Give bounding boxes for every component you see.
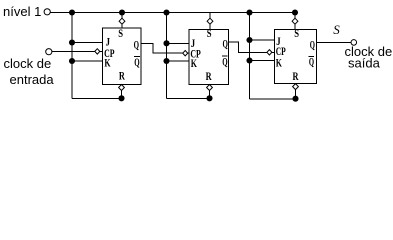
U3 pin labels — [276, 26, 315, 83]
flip-flop U2 box — [189, 30, 228, 85]
U1 CP stub — [100, 50, 103, 52]
U2 S stub wire — [209, 13, 211, 19]
wire FF2 K — [167, 60, 190, 62]
svg-text:K: K — [191, 56, 198, 70]
U2 S bubble — [207, 18, 213, 24]
svg-text:R: R — [206, 69, 212, 83]
terminal clock de entrada — [46, 49, 52, 55]
terminal nivel 1 — [44, 9, 50, 15]
U2 Qbar overline — [222, 55, 228, 57]
U3 S stub lower — [294, 24, 296, 30]
junction dot FF1 K — [69, 58, 75, 64]
svg-text:Q: Q — [222, 55, 227, 69]
svg-text:Q: Q — [134, 37, 139, 51]
svg-text:nível 1: nível 1 — [3, 4, 41, 19]
svg-text:S: S — [118, 26, 123, 40]
wire top rail — [50, 12, 295, 14]
svg-text:S: S — [294, 26, 299, 40]
junction dot top rail FF1 S stub — [119, 9, 125, 15]
wire clock de entrada to CP1 — [52, 50, 95, 52]
clock de saida label — [345, 44, 393, 71]
wire FF2 J — [167, 42, 190, 44]
U2 pin labels — [190, 26, 228, 83]
svg-text:R: R — [293, 69, 299, 83]
junction dot FF3 J — [246, 37, 252, 43]
U3 S stub wire — [294, 13, 296, 19]
flip-flop U3 box — [275, 30, 317, 84]
wire FF1 bottom — [72, 98, 122, 100]
U3 Qbar overline — [309, 55, 314, 57]
wire FF3 bottom — [250, 98, 296, 100]
wire FF3 K — [250, 60, 275, 62]
U3 R bubble — [293, 84, 299, 90]
wire FF1 K — [72, 60, 103, 62]
svg-text:K: K — [104, 55, 111, 69]
junction dot FF2 R — [206, 95, 212, 101]
terminal clock de saida — [351, 40, 357, 46]
wire FF1 JK drop rail — [71, 13, 73, 99]
wire U3 Q to clock de saida — [317, 42, 352, 44]
junction dot FF3 R — [292, 96, 298, 102]
wire FF2 JK drop rail — [166, 13, 168, 99]
wire U1 Q to U2 CP — [141, 43, 183, 53]
svg-text:clock de: clock de — [4, 56, 52, 71]
U1 S stub lower — [121, 24, 123, 28]
svg-text:Q: Q — [310, 38, 315, 52]
U2 CP stub — [188, 52, 189, 54]
U1 S bubble — [119, 18, 125, 24]
wire FF3 J — [250, 39, 275, 41]
svg-text:K: K — [276, 56, 283, 70]
svg-text:saída: saída — [348, 56, 381, 71]
U1 R stub wire — [121, 91, 123, 99]
svg-text:R: R — [119, 69, 125, 83]
U1 CP bubble — [95, 49, 100, 54]
U2 R bubble — [207, 85, 213, 91]
U2 R stub wire — [209, 91, 211, 99]
U2 CP bubble — [183, 51, 188, 56]
junction dot FF1 J — [69, 39, 75, 45]
U1 Qbar overline — [134, 56, 140, 58]
wire FF3 JK drop rail — [249, 13, 251, 100]
U3 CP bubble — [267, 50, 272, 55]
wire FF1 J — [72, 42, 103, 44]
svg-text:S: S — [333, 22, 340, 37]
junction dot top rail FF2 JK drop — [163, 9, 169, 15]
U3 R stub wire — [295, 90, 297, 99]
svg-text:S: S — [207, 26, 212, 40]
wire FF2 bottom — [167, 98, 210, 100]
junction dot top rail FF1 JK drop — [69, 9, 75, 15]
svg-text:Q: Q — [223, 37, 228, 51]
U1 pin labels — [104, 26, 140, 83]
U3 S bubble — [292, 18, 298, 24]
junction dot FF2 J — [163, 40, 169, 46]
U3 CP stub — [272, 51, 275, 53]
U2 S stub lower — [209, 24, 211, 30]
junction dot FF1 R — [118, 95, 124, 101]
clock de entrada label — [4, 56, 55, 87]
junction dot top rail FF3 S stub — [292, 9, 298, 15]
U1 R bubble — [119, 85, 125, 91]
U1 S stub wire — [121, 13, 123, 19]
junction dot top rail FF3 JK drop — [246, 9, 252, 15]
junction dot FF3 K — [246, 57, 252, 63]
junction dot FF2 K — [163, 58, 169, 64]
svg-text:entrada: entrada — [10, 72, 55, 87]
flip-flop U1 box — [103, 28, 141, 84]
wire U2 Q to U3 CP — [228, 42, 267, 52]
